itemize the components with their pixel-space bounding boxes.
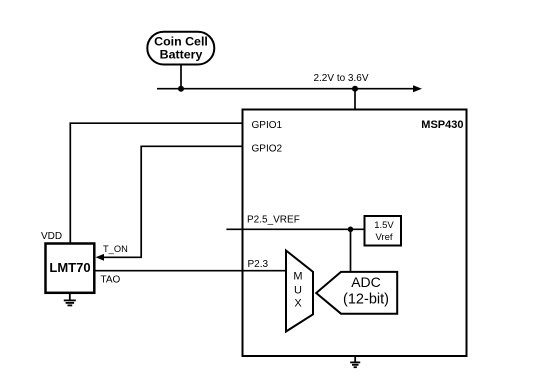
svg-text:Coin Cell: Coin Cell (154, 34, 208, 48)
svg-text:TAO: TAO (101, 274, 121, 285)
svg-text:Battery: Battery (160, 47, 203, 61)
svg-text:P2.5_VREF: P2.5_VREF (247, 214, 300, 225)
svg-text:U: U (294, 284, 302, 296)
svg-text:T_ON: T_ON (103, 244, 128, 254)
svg-text:(12-bit): (12-bit) (343, 292, 389, 308)
svg-text:1.5V: 1.5V (374, 220, 394, 231)
svg-text:GPIO2: GPIO2 (252, 143, 283, 154)
svg-text:Vref: Vref (375, 232, 392, 243)
svg-text:X: X (294, 298, 302, 310)
svg-text:ADC: ADC (351, 274, 381, 290)
svg-text:M: M (293, 271, 302, 283)
svg-text:P2.3: P2.3 (248, 259, 269, 270)
svg-text:MSP430: MSP430 (421, 119, 463, 131)
svg-text:GPIO1: GPIO1 (252, 120, 283, 131)
svg-text:VDD: VDD (41, 231, 62, 242)
svg-text:LMT70: LMT70 (49, 260, 90, 275)
svg-text:2.2V to 3.6V: 2.2V to 3.6V (313, 73, 368, 84)
